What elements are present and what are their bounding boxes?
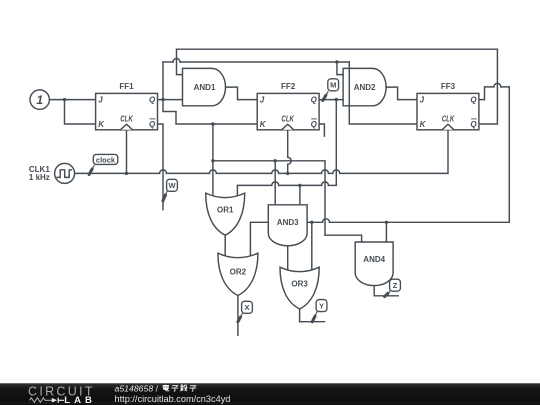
svg-text:a5148658 /: a5148658 /	[115, 383, 159, 393]
svg-text:Z: Z	[393, 281, 398, 290]
svg-text:AND1: AND1	[194, 83, 216, 92]
svg-text:X: X	[244, 303, 249, 312]
svg-text:FF2: FF2	[281, 82, 296, 91]
svg-text:AND3: AND3	[277, 218, 299, 227]
svg-text:Q: Q	[470, 96, 477, 105]
svg-text:CLK: CLK	[442, 114, 456, 123]
svg-text:1 kHz: 1 kHz	[29, 173, 50, 182]
svg-text:J: J	[98, 96, 103, 105]
svg-text:FF1: FF1	[119, 82, 134, 91]
svg-text:J: J	[420, 96, 425, 105]
svg-text:Q: Q	[149, 120, 156, 129]
svg-text:Q: Q	[311, 96, 318, 105]
svg-text:AND2: AND2	[354, 83, 376, 92]
svg-text:Q: Q	[470, 120, 477, 129]
svg-text:clock: clock	[96, 155, 116, 164]
svg-text:CLK: CLK	[281, 114, 295, 123]
svg-text:OR1: OR1	[217, 206, 234, 215]
svg-text:LAB: LAB	[64, 395, 96, 405]
svg-text:W: W	[168, 181, 176, 190]
svg-text:1: 1	[36, 93, 43, 107]
svg-text:Q: Q	[149, 96, 156, 105]
svg-text:OR2: OR2	[230, 268, 247, 277]
svg-text:M: M	[330, 81, 336, 90]
svg-text:Q: Q	[311, 120, 318, 129]
svg-text:Y: Y	[319, 302, 324, 311]
svg-text:AND4: AND4	[363, 255, 385, 264]
svg-text:CLK: CLK	[120, 114, 134, 123]
svg-text:J: J	[260, 96, 265, 105]
svg-text:http://circuitlab.com/cn3c4yd: http://circuitlab.com/cn3c4yd	[115, 394, 231, 404]
svg-text:FF3: FF3	[441, 82, 456, 91]
svg-text:OR3: OR3	[291, 280, 308, 289]
